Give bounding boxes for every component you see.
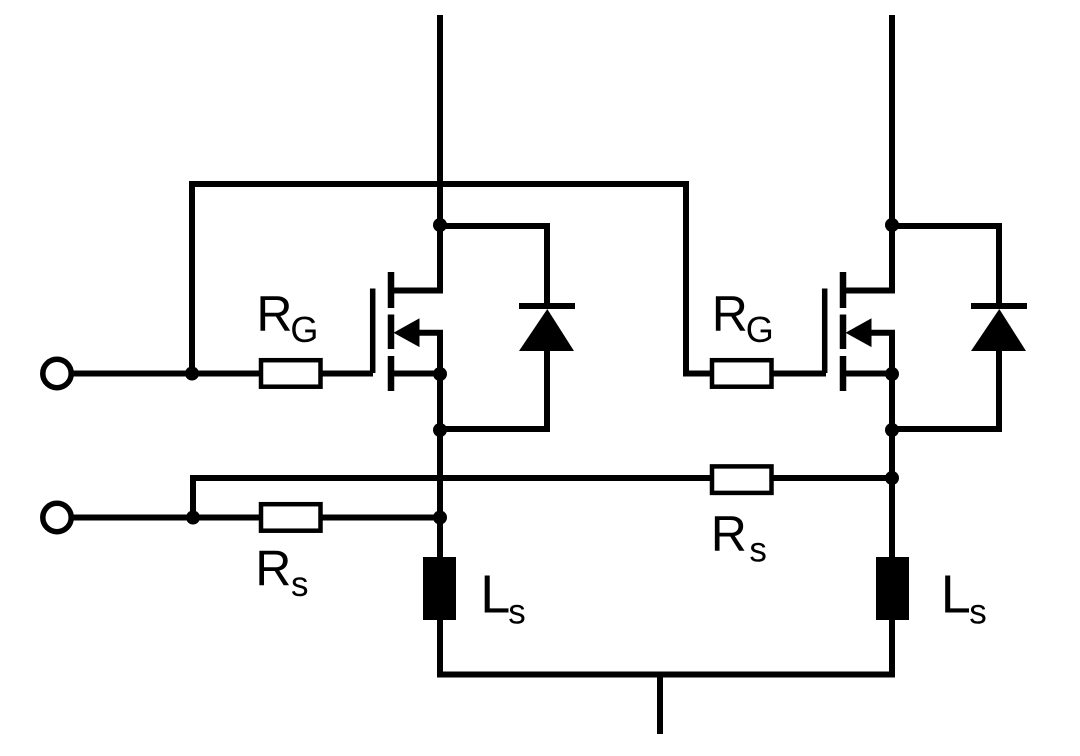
resistor RS1 body <box>261 504 321 531</box>
resistor RS2 body <box>712 466 772 493</box>
node G1 junction dot <box>185 367 199 381</box>
wire Q1 drain lead and drain rail up <box>391 15 440 291</box>
node Q1 source wire junction dot <box>433 511 447 525</box>
svg-text:G: G <box>290 309 318 350</box>
diode D1 triangle <box>519 309 574 351</box>
node Q1 drain junction dot <box>433 218 447 232</box>
svg-text:L: L <box>480 564 510 624</box>
svg-text:R: R <box>255 541 291 597</box>
transistor Q2 channel dash top <box>840 272 847 308</box>
inductor LS2 body <box>876 557 909 620</box>
node S1 junction dot <box>186 511 200 525</box>
transistor Q2 body arrow <box>846 318 872 347</box>
transistor Q1 body arrow <box>394 318 420 347</box>
node Q1 source dot <box>433 367 447 381</box>
wire Q2 source down to bottom bus <box>889 374 895 675</box>
transistor Q2 channel dash middle <box>840 315 847 350</box>
wire bottom stub to common source terminal <box>657 675 663 735</box>
transistor Q2 gate bar <box>822 289 828 374</box>
terminal IN1 <box>43 359 71 387</box>
transistor Q1 gate bar <box>370 289 376 374</box>
transistor Q2 channel dash bottom <box>840 356 847 391</box>
diode D2 triangle <box>971 309 1026 351</box>
wire gate loop (node G1 up, across, down to Q2 gate) <box>192 184 826 374</box>
svg-text:s: s <box>969 592 987 631</box>
wire Q2 body to source <box>868 333 892 374</box>
wire Q1 source down to bottom bus <box>437 374 443 675</box>
node Q2 sense junction dot <box>885 471 899 485</box>
svg-text:G: G <box>746 309 774 350</box>
svg-text:R: R <box>256 286 292 342</box>
wire Q2 drain lead and drain rail up <box>843 15 892 291</box>
node Q2 source dot <box>885 367 899 381</box>
svg-text:s: s <box>508 592 526 631</box>
svg-text:R: R <box>712 286 748 342</box>
node Q2 drain junction dot <box>885 218 899 232</box>
svg-text:R: R <box>711 506 747 562</box>
svg-text:s: s <box>749 531 767 570</box>
wire sense loop (node S1 up, across to Q2 source) <box>193 478 892 518</box>
wire gate input 1 (terminal to Q1 gate) <box>73 371 373 377</box>
svg-text:L: L <box>941 564 971 624</box>
diode D2 cathode bar <box>971 303 1027 309</box>
wire source input 2 (terminal to Q1 source branch) <box>73 515 440 521</box>
resistor RG1 body <box>261 360 321 387</box>
wire Q1 source lead <box>391 371 440 377</box>
wire Q2 source lead <box>843 371 892 377</box>
node Q2 diode anode junction dot <box>885 423 899 437</box>
terminal IN2 <box>43 503 71 531</box>
diode D1 cathode bar <box>519 303 575 309</box>
wire bottom source bus <box>437 672 895 678</box>
transistor Q1 channel dash middle <box>388 315 395 350</box>
transistor Q1 channel dash bottom <box>388 356 395 391</box>
diode D1 connection wires <box>440 226 547 429</box>
transistor Q1 channel dash top <box>388 272 395 308</box>
inductor LS1 body <box>423 557 456 620</box>
svg-text:s: s <box>291 565 309 604</box>
wire Q1 body to source <box>416 333 440 374</box>
node Q1 diode anode junction dot <box>433 423 447 437</box>
diode D2 connection wires <box>892 226 999 429</box>
resistor RG2 body <box>712 360 772 387</box>
